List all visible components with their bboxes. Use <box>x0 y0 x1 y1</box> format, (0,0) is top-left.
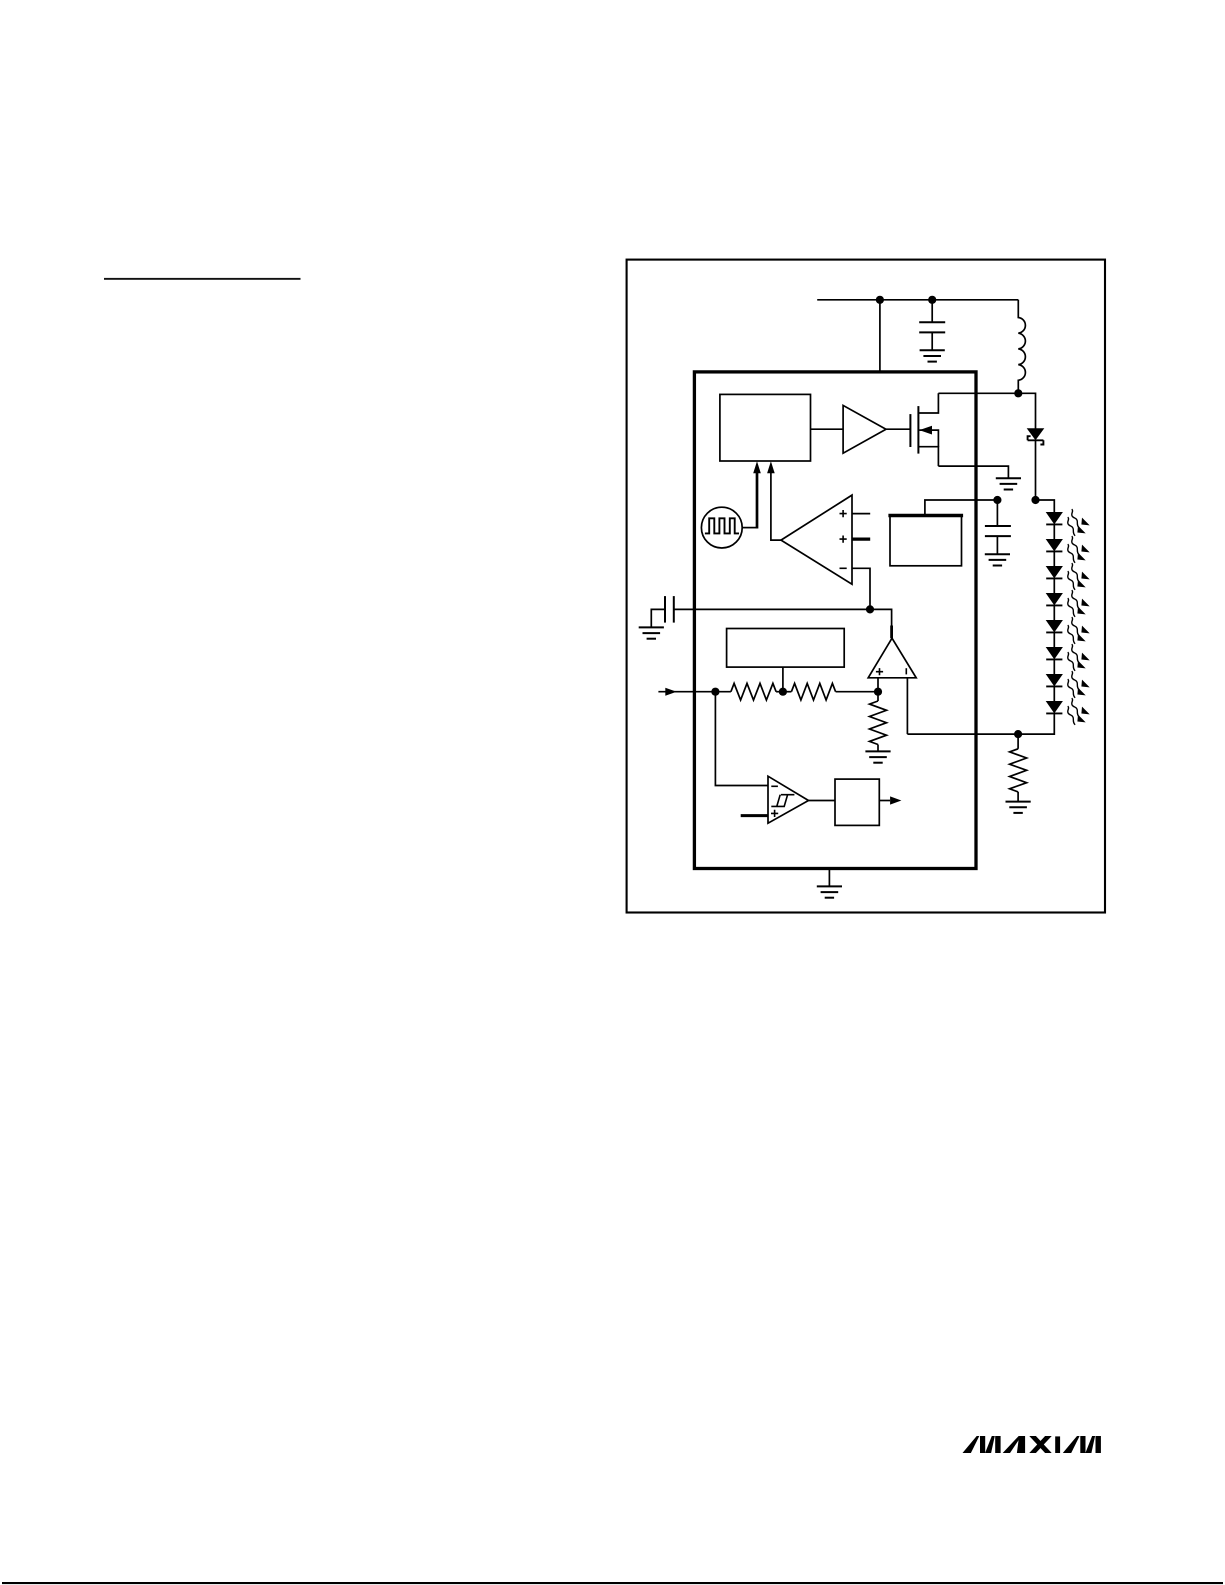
label - <box>840 567 847 569</box>
wire IN pin drop <box>879 300 881 372</box>
LED string D2-D9 <box>1046 509 1090 725</box>
node COMP junction <box>866 605 874 613</box>
pin schmitt + reference stub <box>741 814 768 817</box>
wire COMP node <box>674 608 870 610</box>
wire LX drain to inductor <box>938 392 1018 394</box>
wire VCC node to LED string <box>1036 500 1055 512</box>
wire LED cathode return <box>907 714 1054 735</box>
oscillator <box>701 507 742 548</box>
ground PGND <box>996 478 1021 489</box>
ground CVCC <box>985 554 1010 565</box>
op-amp schmitt comparator <box>768 776 809 823</box>
LED D8 <box>1053 659 1055 674</box>
LED D6 <box>1053 605 1055 620</box>
diode D1 schottky <box>1027 428 1045 500</box>
pin + cs input (bold) <box>852 537 870 540</box>
label - <box>771 785 778 787</box>
node VIN junction 2 <box>928 296 936 304</box>
wire schmitt out <box>809 800 836 802</box>
reference DAC box <box>727 629 845 668</box>
wire tap <box>776 691 791 693</box>
label + <box>771 810 778 817</box>
ground CCOMP <box>639 627 664 638</box>
wire pwm comparator to control box <box>771 472 781 540</box>
wire VIN supply rail <box>817 299 1018 301</box>
wire FLT output arrow <box>879 800 890 802</box>
wire OVP to VCC node <box>925 500 998 516</box>
ground GND <box>817 886 842 897</box>
pin gm - input feedback <box>906 678 908 734</box>
op-amp PWM comparator <box>781 495 852 584</box>
capacitor CVCC <box>985 500 1011 554</box>
node SW junction <box>1014 389 1022 397</box>
resistor R1 <box>731 683 776 700</box>
LED D7 <box>1053 632 1055 647</box>
wire box to driver <box>811 428 844 430</box>
ground R3 <box>865 751 890 762</box>
capacitor CCOMP <box>651 596 674 627</box>
LED D4 <box>1053 551 1055 566</box>
OVP box <box>890 516 962 566</box>
wire divider to schmitt <box>715 692 768 786</box>
figure frame <box>627 260 1105 913</box>
wire to diode <box>1018 393 1035 428</box>
control logic box <box>720 394 811 461</box>
LED D3 <box>1053 524 1055 539</box>
ground RCS <box>1006 802 1031 813</box>
transistor Q1 nmos <box>910 393 938 466</box>
pin - comp input <box>852 568 870 609</box>
inductor L1 <box>1018 300 1025 394</box>
wire to gm input <box>836 691 878 693</box>
ground CIN <box>920 350 945 361</box>
IC boundary MAX16807 <box>694 372 976 869</box>
label + <box>840 536 847 543</box>
node CS junction <box>1014 730 1022 738</box>
label + <box>840 510 847 517</box>
node divider left <box>711 688 719 696</box>
wire source to PGND <box>938 466 1008 478</box>
node divider tap <box>779 688 787 696</box>
title underline <box>104 278 301 280</box>
wire DIM input with arrow <box>658 691 731 693</box>
node VIN junction 1 <box>876 296 884 304</box>
resistor RCS <box>1017 734 1019 749</box>
wire COMP to error amp output <box>870 609 892 625</box>
LED D5 <box>1053 578 1055 593</box>
Maxim logo <box>963 1436 1101 1453</box>
hysteresis symbol <box>771 795 794 807</box>
capacitor CIN <box>919 300 945 351</box>
wire osc to control box <box>742 527 757 529</box>
node D1 cathode junction <box>1031 496 1039 504</box>
pin + slope input <box>852 513 870 515</box>
LED D9 <box>1053 686 1055 701</box>
footer rule <box>2 1582 1223 1584</box>
op-amp error amplifier gm <box>868 626 916 678</box>
resistor R2 <box>791 683 835 700</box>
wire driver to gate <box>886 428 910 430</box>
buffer driver <box>843 405 886 453</box>
pin gm + input <box>877 678 879 692</box>
node gm input junction <box>874 688 882 696</box>
one-shot box <box>835 779 879 825</box>
resistor R3 internal <box>877 692 879 701</box>
wire GND pin <box>828 869 830 887</box>
wire ref box to divider tap <box>782 667 784 692</box>
node VCC junction <box>993 496 1001 504</box>
LED D2 <box>1046 512 1063 524</box>
